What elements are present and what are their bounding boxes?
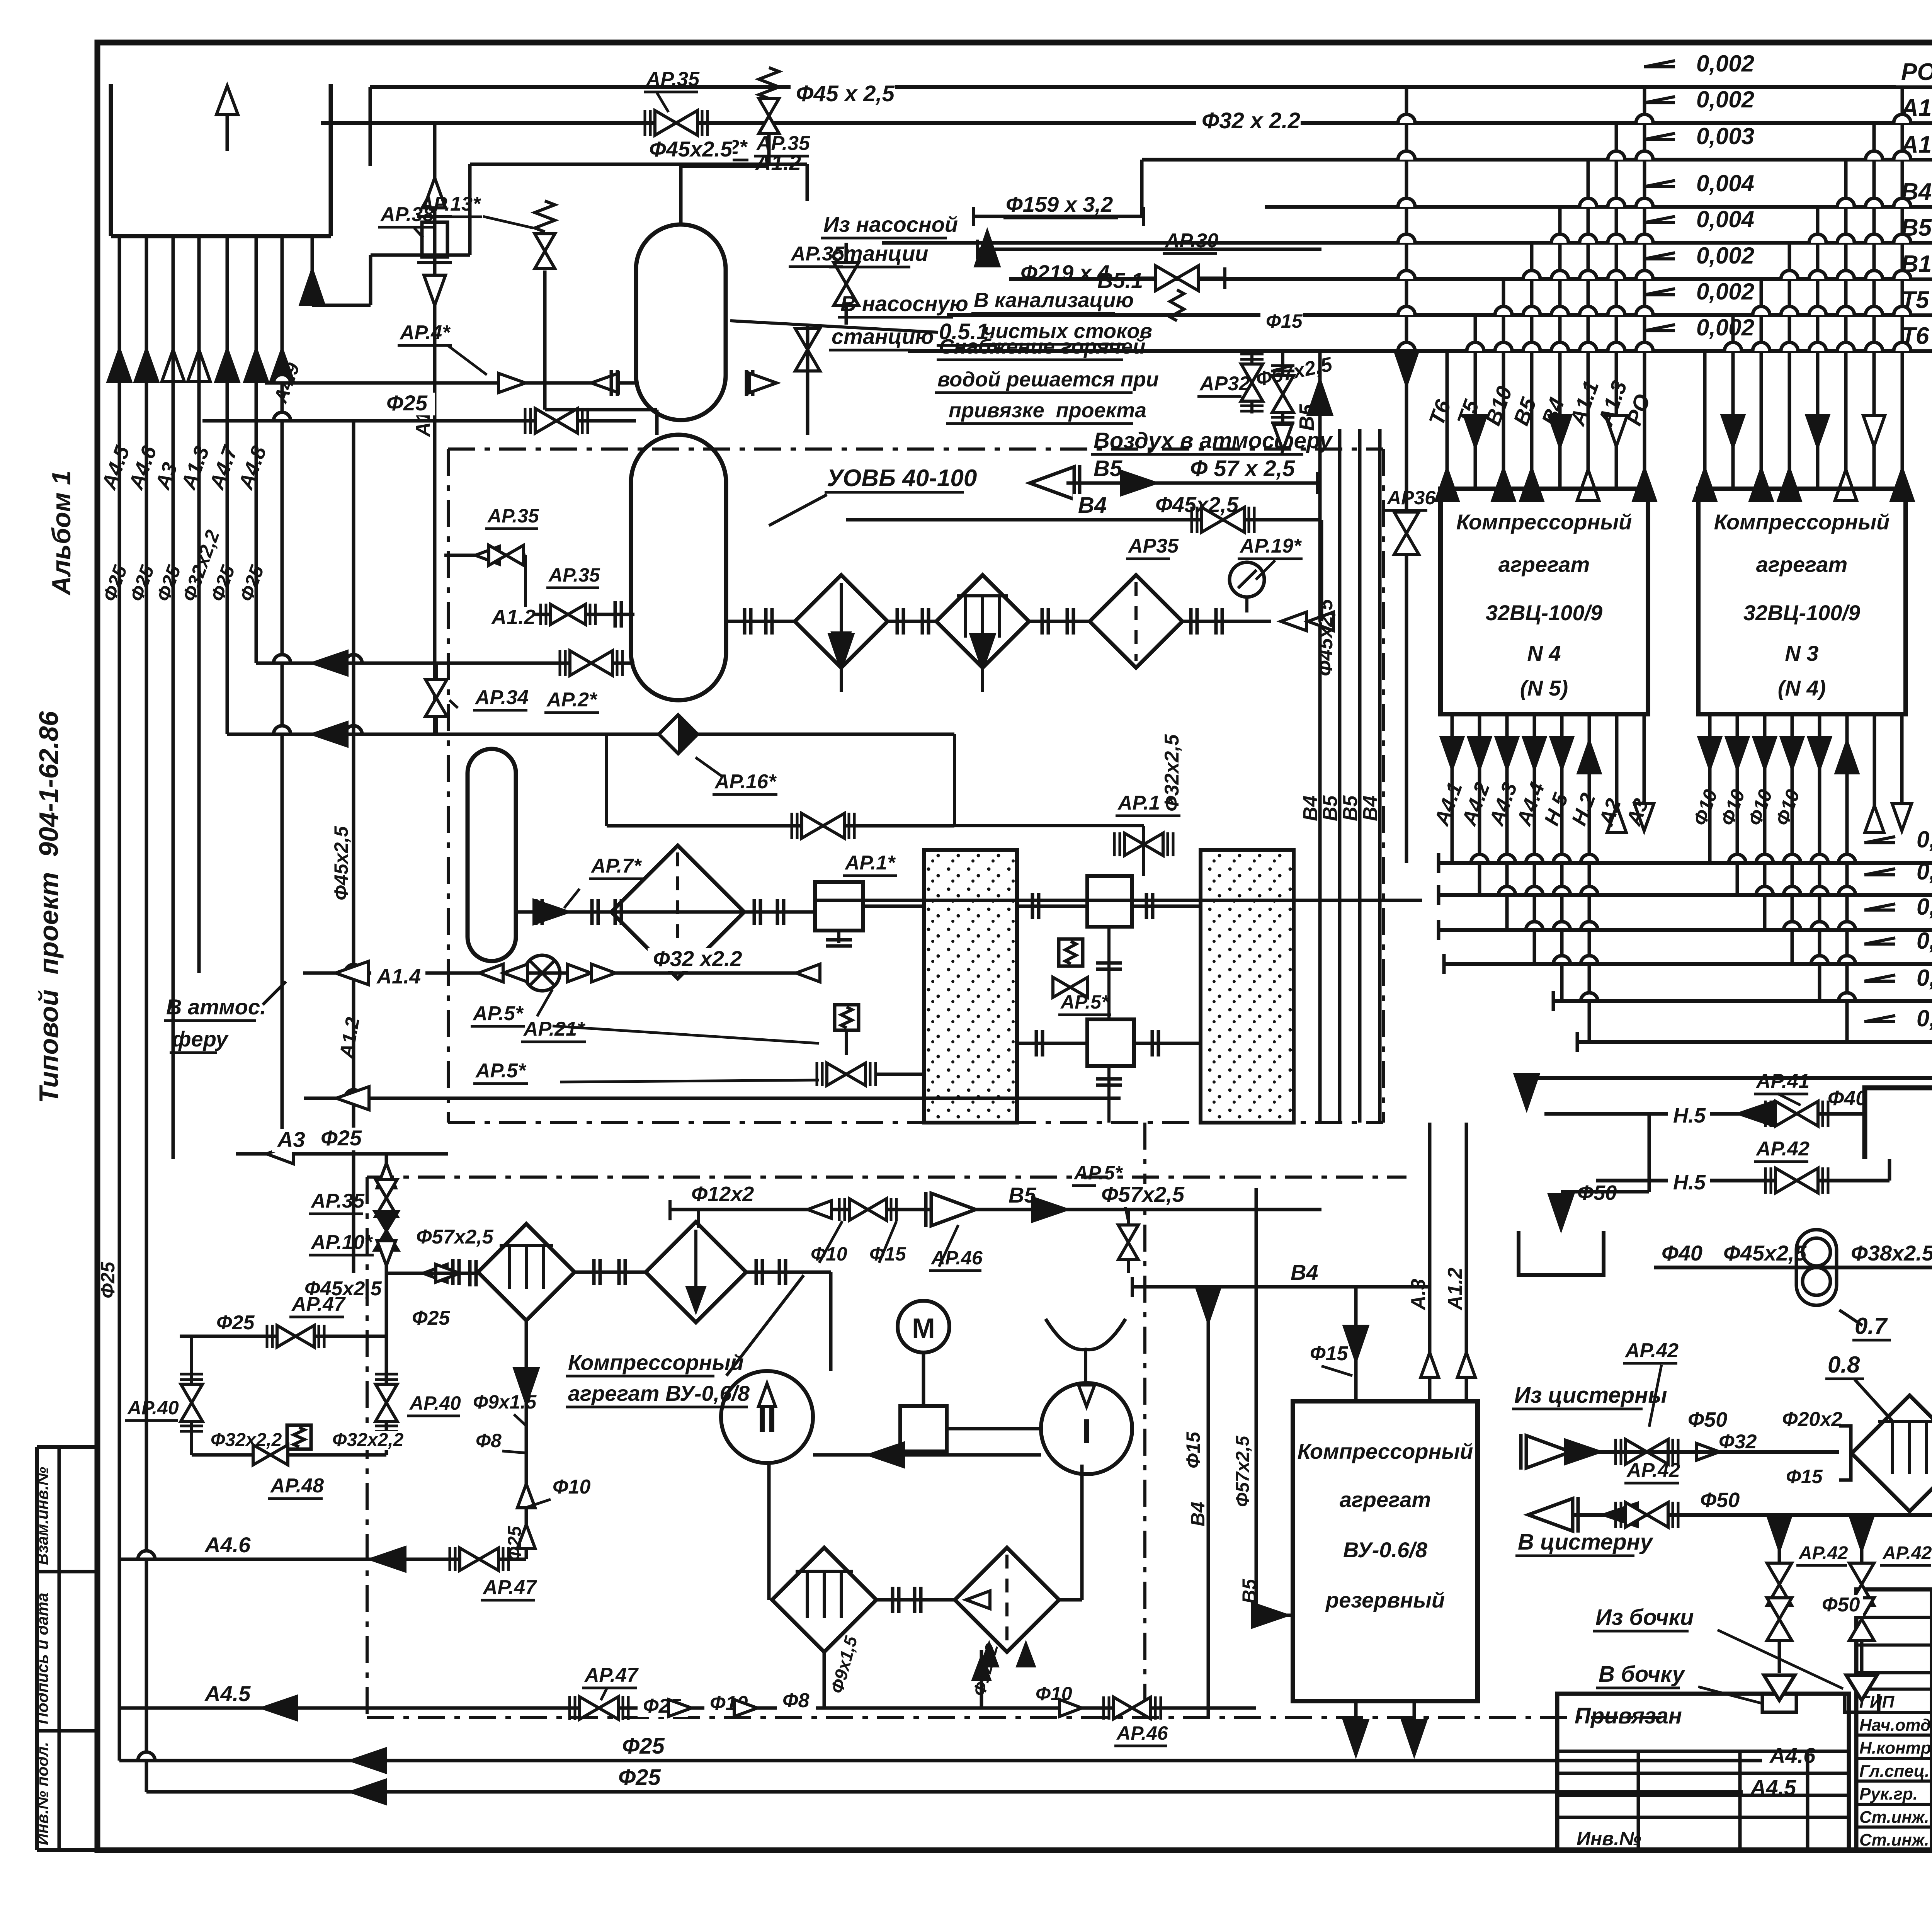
svg-text:АР32: АР32 xyxy=(1199,373,1250,395)
svg-text:Ф45х2.5: Ф45х2.5 xyxy=(649,137,733,161)
svg-text:В насосную: В насосную xyxy=(840,291,968,316)
svg-text:АР.35: АР.35 xyxy=(487,505,539,527)
svg-text:Компрессорный: Компрессорный xyxy=(1298,1439,1473,1463)
svg-text:Ф10: Ф10 xyxy=(553,1476,591,1498)
svg-text:Из цистерны: Из цистерны xyxy=(1514,1383,1667,1408)
svg-text:0,002: 0,002 xyxy=(1696,279,1754,305)
svg-text:АР.19*: АР.19* xyxy=(1239,535,1302,557)
svg-text:АР.42: АР.42 xyxy=(1755,1138,1810,1160)
svg-text:Ф38х2.5, Ф32: Ф38х2.5, Ф32 xyxy=(1851,1241,1932,1265)
svg-text:Ф57х2,5: Ф57х2,5 xyxy=(1233,1435,1253,1507)
svg-text:АР.35: АР.35 xyxy=(548,564,600,586)
svg-text:АР.42: АР.42 xyxy=(1798,1543,1848,1563)
svg-text:АР.2*: АР.2* xyxy=(546,689,598,711)
svg-text:0,003: 0,003 xyxy=(1917,928,1932,954)
svg-text:Ф15: Ф15 xyxy=(1182,1431,1204,1468)
svg-text:АР.34: АР.34 xyxy=(474,686,529,709)
svg-text:Ф32 х 2.2: Ф32 х 2.2 xyxy=(1202,108,1300,133)
svg-text:станции: станции xyxy=(832,241,929,265)
svg-text:Ф45х2,5: Ф45х2,5 xyxy=(1315,599,1337,676)
svg-text:АР.35: АР.35 xyxy=(645,68,700,90)
svg-text:В4: В4 xyxy=(1359,795,1382,821)
svg-text:Ф8: Ф8 xyxy=(782,1689,810,1712)
svg-text:А4.5: А4.5 xyxy=(1750,1775,1796,1800)
svg-text:Типовой проект 904-1-62.86: Типовой проект 904-1-62.86 xyxy=(34,711,64,1103)
svg-text:М: М xyxy=(912,1313,935,1344)
svg-text:В бочку: В бочку xyxy=(1599,1662,1685,1687)
svg-text:АР.46: АР.46 xyxy=(1116,1722,1168,1744)
svg-text:АР.1*: АР.1* xyxy=(844,852,896,874)
svg-text:Ф159 х 3,2: Ф159 х 3,2 xyxy=(1006,192,1113,216)
svg-text:Ф20х2: Ф20х2 xyxy=(1782,1408,1842,1431)
svg-text:32ВЦ-100/9: 32ВЦ-100/9 xyxy=(1486,601,1602,625)
svg-text:АР.1 *: АР.1 * xyxy=(1117,792,1175,814)
svg-text:АР36: АР36 xyxy=(1386,487,1436,509)
svg-text:АР.30: АР.30 xyxy=(1164,230,1218,252)
svg-text:АР.47: АР.47 xyxy=(584,1664,639,1686)
svg-text:В5: В5 xyxy=(1094,456,1122,481)
svg-text:А1.2: А1.2 xyxy=(1444,1267,1466,1311)
svg-text:АР.21*: АР.21* xyxy=(523,1018,586,1040)
svg-text:0,003: 0,003 xyxy=(1917,859,1932,885)
svg-text:I: I xyxy=(1082,1412,1091,1451)
svg-text:Альбом 1: Альбом 1 xyxy=(47,471,76,596)
svg-text:Ф25: Ф25 xyxy=(97,1261,119,1298)
svg-text:0,004: 0,004 xyxy=(1696,170,1754,196)
svg-text:АР.35: АР.35 xyxy=(310,1190,365,1212)
svg-text:(N 4): (N 4) xyxy=(1778,676,1826,700)
svg-text:Ф57х2,5: Ф57х2,5 xyxy=(1101,1182,1185,1206)
svg-text:Ф40: Ф40 xyxy=(1662,1241,1702,1265)
svg-text:Ф57х2,5: Ф57х2,5 xyxy=(416,1226,494,1248)
svg-text:0.8: 0.8 xyxy=(1828,1352,1860,1378)
svg-text:В4: В4 xyxy=(1291,1260,1318,1284)
svg-text:АР.48: АР.48 xyxy=(270,1475,324,1497)
svg-text:0,002: 0,002 xyxy=(1696,87,1754,112)
svg-text:0,006: 0,006 xyxy=(1917,965,1932,991)
svg-text:0,003: 0,003 xyxy=(1917,827,1932,852)
svg-text:Инв.№: Инв.№ xyxy=(1577,1828,1641,1849)
svg-text:АР.16*: АР.16* xyxy=(714,771,777,793)
svg-text:Ф45х2,5: Ф45х2,5 xyxy=(330,826,352,900)
svg-text:В4: В4 xyxy=(1299,795,1322,821)
svg-text:(N 5): (N 5) xyxy=(1520,676,1568,700)
svg-text:Ф15: Ф15 xyxy=(869,1243,906,1265)
svg-text:резервный: резервный xyxy=(1325,1588,1445,1612)
svg-text:Компрессорный: Компрессорный xyxy=(1456,510,1632,534)
svg-text:Ф40: Ф40 xyxy=(1828,1087,1867,1110)
svg-text:Ф45 х 2,5: Ф45 х 2,5 xyxy=(796,81,895,106)
svg-text:N 4: N 4 xyxy=(1527,641,1561,665)
svg-text:Ф25: Ф25 xyxy=(412,1307,451,1329)
svg-text:В5: В5 xyxy=(1238,1579,1260,1604)
svg-text:АР.42: АР.42 xyxy=(1624,1339,1679,1362)
svg-text:АР.47: АР.47 xyxy=(291,1293,346,1315)
svg-text:АР.5*: АР.5* xyxy=(1060,991,1110,1013)
svg-text:В5: В5 xyxy=(1319,795,1342,821)
svg-text:АР.13*: АР.13* xyxy=(418,193,481,215)
svg-text:Компрессорный: Компрессорный xyxy=(1714,510,1890,534)
svg-text:Ф25: Ф25 xyxy=(216,1312,255,1334)
svg-text:водой решается при: водой решается при xyxy=(937,368,1159,391)
svg-text:В5: В5 xyxy=(1339,795,1362,821)
svg-text:АР.5*: АР.5* xyxy=(1073,1162,1123,1184)
svg-text:АР.42: АР.42 xyxy=(1626,1459,1680,1482)
svg-text:Взам.инв.№: Взам.инв.№ xyxy=(33,1467,51,1565)
svg-text:РО: РО xyxy=(1901,59,1932,85)
svg-text:Ф8: Ф8 xyxy=(476,1430,502,1451)
svg-text:Н.5: Н.5 xyxy=(1673,1104,1706,1127)
svg-text:АР.4*: АР.4* xyxy=(399,322,451,344)
svg-text:Ф32 х2.2: Ф32 х2.2 xyxy=(653,946,742,971)
svg-text:Снабжение горячей: Снабжение горячей xyxy=(939,335,1146,358)
svg-text:АР.5*: АР.5* xyxy=(472,1002,524,1025)
svg-text:Привязан: Привязан xyxy=(1575,1703,1682,1728)
svg-text:агрегат: агрегат xyxy=(1340,1487,1431,1512)
svg-text:Из насосной: Из насосной xyxy=(823,212,958,236)
svg-text:0,002: 0,002 xyxy=(1696,315,1754,340)
svg-text:А1.4: А1.4 xyxy=(376,965,421,988)
svg-text:АР.41: АР.41 xyxy=(1755,1070,1810,1092)
svg-text:Ф32х2,2: Ф32х2,2 xyxy=(211,1430,282,1450)
svg-text:АР.42: АР.42 xyxy=(1882,1543,1932,1563)
svg-text:А4.5: А4.5 xyxy=(204,1681,251,1706)
svg-text:Н.5: Н.5 xyxy=(1673,1171,1706,1194)
svg-text:Ф25: Ф25 xyxy=(386,391,428,415)
svg-text:Ф12х2: Ф12х2 xyxy=(691,1182,754,1206)
svg-text:Компрессорный: Компрессорный xyxy=(568,1350,744,1375)
svg-text:В4: В4 xyxy=(1078,493,1107,518)
svg-text:0,004: 0,004 xyxy=(1696,206,1754,232)
svg-text:0,003: 0,003 xyxy=(1696,123,1754,149)
svg-text:Гл.спец.: Гл.спец. xyxy=(1859,1762,1929,1781)
svg-text:Инв.№ подл.: Инв.№ подл. xyxy=(33,1742,51,1845)
svg-text:В атмос.: В атмос. xyxy=(166,995,266,1019)
svg-text:Ф 57 х 2,5: Ф 57 х 2,5 xyxy=(1190,456,1295,481)
svg-text:0,002: 0,002 xyxy=(1696,51,1754,77)
svg-text:АР.40: АР.40 xyxy=(127,1397,179,1419)
svg-text:Ф15: Ф15 xyxy=(1266,310,1303,332)
svg-text:АР35: АР35 xyxy=(1128,535,1179,557)
svg-text:Ф50: Ф50 xyxy=(1700,1489,1740,1512)
svg-text:А.3: А.3 xyxy=(1407,1279,1430,1311)
svg-text:Ст.инж.: Ст.инж. xyxy=(1859,1808,1929,1827)
svg-text:АР.7*: АР.7* xyxy=(590,855,642,877)
svg-text:АР.35: АР.35 xyxy=(756,132,810,155)
svg-text:феру: феру xyxy=(172,1027,229,1051)
svg-text:В цистерну: В цистерну xyxy=(1518,1529,1654,1555)
svg-text:0,006: 0,006 xyxy=(1917,1005,1932,1031)
svg-text:Н.контр.: Н.контр. xyxy=(1859,1739,1932,1757)
svg-text:Ф50: Ф50 xyxy=(1688,1408,1727,1431)
svg-text:ВУ-0.6/8: ВУ-0.6/8 xyxy=(1343,1538,1428,1562)
svg-text:0,002: 0,002 xyxy=(1696,243,1754,269)
svg-text:Подпись и дата: Подпись и дата xyxy=(33,1593,51,1724)
svg-text:А1.2: А1.2 xyxy=(491,606,536,629)
svg-text:32ВЦ-100/9: 32ВЦ-100/9 xyxy=(1743,601,1860,625)
svg-text:А4.6: А4.6 xyxy=(204,1533,251,1557)
svg-text:0,003: 0,003 xyxy=(1917,894,1932,920)
svg-text:Ф32: Ф32 xyxy=(1719,1431,1757,1453)
svg-text:АР.40: АР.40 xyxy=(409,1392,461,1414)
svg-text:УОВБ 40-100: УОВБ 40-100 xyxy=(827,465,977,492)
svg-text:АР.5*: АР.5* xyxy=(475,1060,527,1082)
svg-text:Ф15: Ф15 xyxy=(1310,1342,1349,1365)
svg-text:агрегат: агрегат xyxy=(1756,552,1847,577)
svg-text:Ф25: Ф25 xyxy=(618,1765,661,1790)
svg-text:Из бочки: Из бочки xyxy=(1595,1605,1694,1630)
svg-text:В5: В5 xyxy=(1295,404,1318,431)
svg-text:Ст.инж.: Ст.инж. xyxy=(1859,1831,1929,1849)
svg-text:Ф50: Ф50 xyxy=(1822,1594,1860,1616)
svg-text:А3: А3 xyxy=(277,1127,305,1152)
svg-text:В канализацию: В канализацию xyxy=(974,289,1134,312)
svg-text:Рук.гр.: Рук.гр. xyxy=(1859,1785,1918,1803)
svg-text:Ф219 х 4: Ф219 х 4 xyxy=(1020,260,1110,285)
svg-text:станцию: станцию xyxy=(832,324,934,349)
svg-text:АР.47: АР.47 xyxy=(482,1576,537,1599)
svg-text:Ф25: Ф25 xyxy=(321,1126,362,1150)
svg-text:Ф32х2,2: Ф32х2,2 xyxy=(332,1430,404,1450)
svg-text:Ф9х1.5: Ф9х1.5 xyxy=(473,1391,537,1413)
svg-text:АР.10*: АР.10* xyxy=(310,1231,373,1254)
svg-text:N 3: N 3 xyxy=(1785,641,1818,665)
svg-text:Ф25: Ф25 xyxy=(622,1734,665,1759)
svg-text:0.7: 0.7 xyxy=(1855,1313,1888,1339)
svg-text:Ф45х2,5: Ф45х2,5 xyxy=(1723,1241,1807,1265)
svg-text:Ф15: Ф15 xyxy=(1786,1466,1823,1487)
svg-text:В4: В4 xyxy=(1187,1502,1209,1526)
svg-text:Нач.отд.: Нач.отд. xyxy=(1859,1716,1932,1735)
svg-text:А4.6: А4.6 xyxy=(1769,1743,1816,1768)
svg-text:привязке проекта: привязке проекта xyxy=(949,399,1146,422)
svg-text:агрегат: агрегат xyxy=(1498,552,1590,577)
